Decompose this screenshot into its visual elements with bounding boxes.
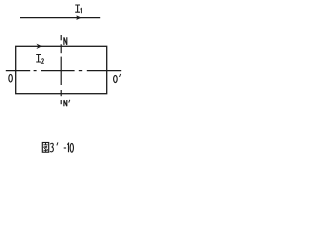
node label O' (right end of centerline) — [114, 74, 121, 83]
rectangular conducting loop — [16, 46, 107, 93]
caption digit 0 — [70, 143, 73, 152]
caption: figure number 图3'-10 (Chinese character drawn as strokes) — [42, 143, 48, 153]
node label O (left end of centerline) — [9, 74, 13, 82]
caption dash — [64, 147, 66, 149]
axis O-O' : horizontal dash-dot centerline — [6, 70, 121, 72]
wire: straight conductor carrying current I1 — [20, 17, 100, 19]
arrowhead: I1 current direction on wire — [77, 16, 81, 20]
node label N (top end of axis) — [64, 37, 67, 45]
node label N' (bottom end of axis) — [64, 100, 70, 107]
caption prime after 3 — [57, 142, 58, 145]
caption digit 1 — [67, 143, 68, 152]
arrowhead: I2 current direction on top side of rectangle — [38, 45, 42, 49]
caption digit 3 — [50, 143, 53, 152]
label I2 — [36, 55, 44, 64]
axis N-N' : vertical dashed line through rectangle center — [60, 35, 62, 104]
label I1 — [75, 5, 81, 13]
